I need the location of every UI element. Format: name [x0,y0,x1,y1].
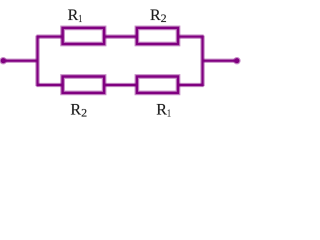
svg-text:R1: R1 [68,7,83,25]
wire: left terminal to left junction [3,59,37,63]
wire: left junction to resistor R1 (top branch) [37,34,64,38]
right terminal dot [233,57,240,64]
svg-text:R2: R2 [70,102,87,120]
wire: R1 to right junction (bottom branch) [178,83,204,87]
resistor R1 (bottom right box) [137,77,178,93]
wire: R2 to R1 (bottom middle) [104,83,137,87]
node: left junction vertical bus [35,36,39,87]
resistor R2 (bottom left box) [63,77,105,93]
resistor R2 (top right box) [137,28,178,44]
svg-text:R2: R2 [150,7,167,25]
wire: right junction to right terminal [203,59,237,63]
wire: left junction to resistor R2 (bottom branch) [37,83,64,87]
wire: R1 to R2 (top middle) [104,34,137,38]
svg-text:R1: R1 [156,102,171,120]
wire: R2 to right junction (top branch) [178,34,204,38]
left terminal dot [0,57,7,64]
node: right junction vertical bus [200,36,204,87]
resistor R1 (top left box) [63,28,105,44]
